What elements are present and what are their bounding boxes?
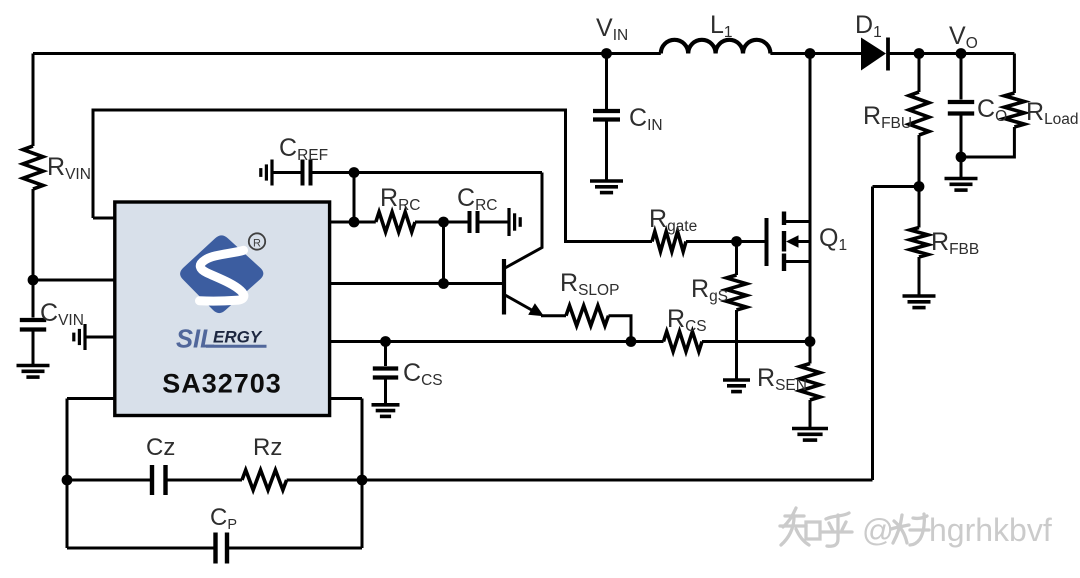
- svg-text:CVIN: CVIN: [40, 299, 84, 329]
- svg-text:RVIN: RVIN: [47, 153, 91, 183]
- svg-text:RFBB: RFBB: [931, 228, 979, 258]
- svg-text:R: R: [253, 238, 261, 250]
- svg-text:Rz: Rz: [253, 434, 282, 461]
- svg-text:RRC: RRC: [380, 184, 420, 214]
- svg-text:@: @: [862, 512, 894, 548]
- svg-text:VO: VO: [949, 22, 978, 52]
- svg-text:Rgate: Rgate: [649, 205, 697, 235]
- svg-text:VIN: VIN: [596, 14, 628, 44]
- svg-text:CCS: CCS: [403, 359, 443, 389]
- svg-text:SA32703: SA32703: [162, 369, 282, 399]
- svg-text:hgrhkbvf: hgrhkbvf: [929, 512, 1052, 548]
- svg-text:CO: CO: [977, 95, 1007, 125]
- svg-text:D1: D1: [855, 11, 882, 41]
- svg-text:RgS: RgS: [691, 275, 728, 305]
- svg-text:Q1: Q1: [819, 224, 847, 254]
- svg-text:RSLOP: RSLOP: [560, 269, 619, 299]
- svg-text:CRC: CRC: [457, 184, 497, 214]
- svg-text:RFBU: RFBU: [863, 102, 912, 132]
- svg-text:RCS: RCS: [667, 305, 707, 335]
- svg-text:RLoad: RLoad: [1026, 98, 1079, 128]
- svg-text:CREF: CREF: [279, 134, 328, 164]
- svg-text:CP: CP: [210, 504, 237, 533]
- svg-text:CIN: CIN: [629, 104, 663, 134]
- svg-text:L1: L1: [710, 11, 733, 41]
- svg-text:RSEN: RSEN: [757, 364, 807, 394]
- svg-text:SIL: SIL: [176, 326, 216, 354]
- svg-text:ERGY: ERGY: [213, 327, 263, 346]
- svg-text:Cz: Cz: [146, 434, 175, 461]
